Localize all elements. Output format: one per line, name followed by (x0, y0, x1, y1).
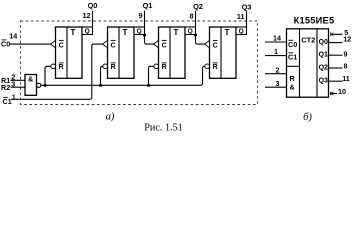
svg-text:К155ИЕ5: К155ИЕ5 (294, 16, 335, 26)
svg-text:1: 1 (274, 47, 278, 56)
svg-text:C1: C1 (3, 97, 12, 106)
svg-text:R: R (162, 64, 167, 71)
svg-text:T: T (225, 28, 230, 37)
FF2 R label (111, 63, 116, 71)
pin 8 (190, 12, 194, 21)
junction R-FF2 (99, 84, 102, 87)
FF2 R inversion circle (103, 64, 108, 69)
svg-text:11: 11 (342, 74, 350, 83)
FF3 R label (162, 63, 167, 71)
pin 9 (139, 11, 143, 20)
svg-text:Q3: Q3 (242, 3, 252, 12)
FF1 C input triangle (51, 41, 56, 48)
svg-text:8: 8 (190, 12, 194, 21)
wire C0 to FF1 (10, 43, 51, 45)
svg-text:8: 8 (344, 61, 348, 70)
node Q0 label (88, 1, 98, 10)
pin 14 wire (265, 41, 287, 43)
FF1 R label (59, 63, 64, 71)
input R2 label (1, 83, 10, 92)
wire Q0 output up (92, 11, 94, 27)
junction R-FF1 (43, 84, 46, 87)
wire Q2 to FF4 clock (196, 35, 205, 45)
IC label Q2 (319, 65, 328, 72)
svg-text:Q0: Q0 (88, 1, 98, 10)
pin 3 (276, 79, 280, 88)
T flip-flop FF1 (56, 27, 93, 78)
IC block U1 body (287, 29, 329, 97)
IC label Q1 (319, 52, 328, 59)
FF3 C input triangle (154, 41, 159, 48)
pin 1 (12, 93, 16, 102)
FF2 C label (111, 40, 116, 49)
T flip-flop FF3 (159, 27, 196, 78)
svg-text:Рис. 1.51: Рис. 1.51 (144, 123, 183, 133)
caption Fig 1.51 (144, 123, 183, 134)
pin 12 wire Q0 (329, 42, 343, 44)
pin 14 (273, 34, 281, 43)
IC label CT2 (301, 35, 315, 44)
wire R1 to NAND (11, 79, 26, 81)
FF4 C input triangle (205, 41, 210, 48)
pin 2 (11, 72, 15, 81)
IC label Q0 (319, 39, 328, 46)
svg-text:C: C (213, 42, 218, 49)
input C1 label (3, 97, 12, 106)
FF3 C label (162, 40, 167, 49)
svg-text:C: C (162, 42, 167, 49)
pin 5 (344, 28, 348, 37)
pin 1 (274, 47, 278, 56)
wire Q3 output up (246, 11, 248, 27)
svg-text:10: 10 (338, 87, 346, 96)
IC label C1 (288, 52, 297, 61)
FF4 R inversion circle (205, 64, 210, 69)
junction Q1 branch (143, 33, 146, 36)
svg-text:&: & (290, 83, 295, 92)
caption a) (106, 112, 115, 123)
input R1 label (1, 76, 10, 85)
svg-text:Q2: Q2 (193, 2, 203, 11)
svg-text:Q: Q (188, 28, 193, 35)
svg-text:9: 9 (344, 50, 348, 59)
svg-text:C: C (111, 42, 116, 49)
svg-text:Q: Q (137, 28, 142, 35)
FF4 C label (213, 40, 218, 49)
FF3 R inversion circle (154, 64, 159, 69)
FF1 C label (59, 40, 64, 49)
svg-text:12: 12 (343, 35, 351, 44)
T flip-flop FF4 (210, 27, 247, 78)
wire R branch to FF1 (45, 66, 51, 85)
svg-text:а): а) (106, 112, 115, 123)
svg-text:2: 2 (276, 65, 280, 74)
pin 14 (9, 32, 17, 41)
svg-text:б): б) (303, 112, 312, 123)
IC label R (290, 74, 296, 83)
IC label Q3 (319, 78, 328, 85)
IC title K155IE5 (294, 16, 335, 26)
svg-text:12: 12 (83, 11, 91, 20)
pin 2 (276, 65, 280, 74)
wire Q2 output up (195, 11, 197, 27)
IC label C0 (288, 40, 297, 49)
pin 1 wire (265, 55, 287, 57)
svg-text:C0: C0 (1, 39, 10, 48)
wire C1 line to FF2 clock (11, 44, 103, 99)
caption b) (303, 112, 312, 123)
svg-text:Q2: Q2 (319, 65, 328, 72)
wire R2 to NAND (11, 86, 26, 88)
pin 11 (237, 12, 245, 21)
svg-text:T: T (71, 28, 76, 37)
FF4 R label (213, 63, 218, 71)
junction Q2 branch (194, 33, 197, 36)
svg-text:C0: C0 (288, 40, 297, 49)
svg-text:Q: Q (85, 28, 90, 35)
dashed IC boundary box (part a) (21, 21, 258, 105)
pin 12 (343, 35, 351, 44)
svg-text:CT2: CT2 (301, 35, 315, 44)
node Q3 label (242, 3, 252, 12)
node Q2 label (193, 2, 203, 11)
wire R line (41, 66, 205, 85)
svg-text:T: T (174, 28, 179, 37)
pin 2 wire (265, 73, 287, 75)
svg-text:Q0: Q0 (319, 39, 328, 46)
svg-text:1: 1 (12, 93, 16, 102)
svg-text:9: 9 (139, 11, 143, 20)
svg-text:R: R (111, 64, 116, 71)
svg-text:3: 3 (276, 79, 280, 88)
NAND gate DD reset (25, 75, 37, 96)
junction R-FF3 (147, 84, 150, 87)
FF1 R inversion circle (51, 64, 56, 69)
svg-text:T: T (123, 28, 128, 37)
svg-text:&: & (28, 77, 33, 84)
pin 8 wire Q2 (329, 67, 343, 69)
pin 3 wire (265, 86, 287, 88)
svg-text:14: 14 (273, 34, 281, 43)
pin 10 wire ground (330, 92, 337, 95)
pin 8 (344, 61, 348, 70)
IC label & (290, 83, 295, 92)
svg-text:Q3: Q3 (319, 78, 328, 85)
pin 12 (83, 11, 91, 20)
pin 11 (342, 74, 350, 83)
wire Q1 output up (144, 11, 146, 27)
T flip-flop FF2 (108, 27, 145, 78)
pin 11 wire Q3 (329, 80, 343, 82)
svg-text:Q: Q (239, 28, 244, 35)
NAND output bubble (37, 83, 41, 87)
svg-text:R: R (59, 64, 64, 71)
pin 3 (11, 79, 15, 88)
svg-text:11: 11 (237, 12, 245, 21)
pin 5 wire power (330, 33, 343, 36)
svg-text:R: R (213, 64, 218, 71)
wire Q1 to FF3 clock (145, 35, 154, 45)
svg-text:Q1: Q1 (319, 52, 328, 59)
input C0 label (1, 39, 10, 48)
svg-text:Q1: Q1 (143, 1, 153, 10)
pin 10 (338, 87, 346, 96)
svg-text:R2: R2 (1, 83, 10, 92)
svg-text:R: R (290, 74, 296, 83)
wire R branch to FF3 (149, 66, 154, 85)
wire R branch to FF2 (101, 66, 103, 85)
FF2 C input triangle (103, 41, 108, 48)
pin 9 wire Q1 (329, 54, 343, 56)
pin 9 (344, 50, 348, 59)
svg-text:C1: C1 (288, 52, 297, 61)
svg-text:C: C (59, 42, 64, 49)
svg-text:14: 14 (9, 32, 17, 41)
node Q1 label (143, 1, 153, 10)
